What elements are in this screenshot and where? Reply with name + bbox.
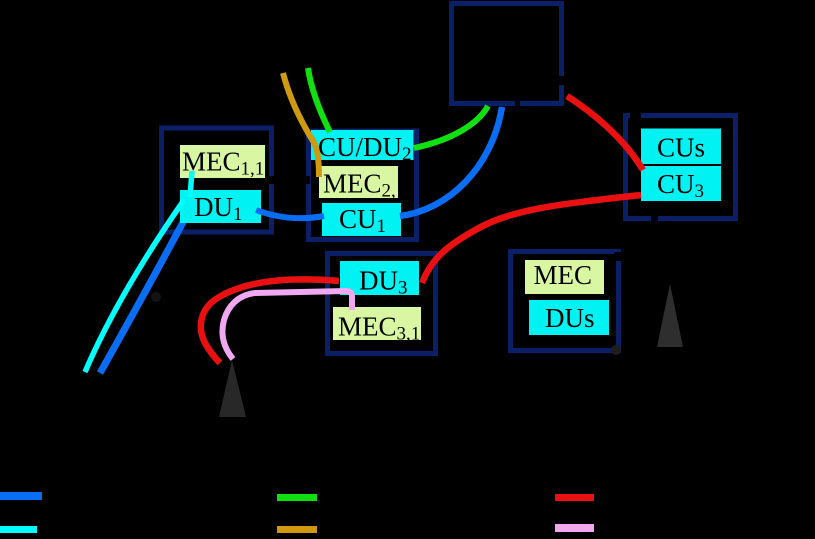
node CUs label [641,129,721,165]
node DU_1 label [180,190,261,225]
border notch MEC/DUs box top right [614,252,622,261]
wire red CU3 to DU3 [422,195,641,283]
node MEC/DUs box [511,252,619,351]
wire blue diagonal DU1 to antenna [100,213,188,373]
wire red cell-site to CUs [567,96,643,170]
svg-text:CU/DU2: CU/DU2 [318,132,412,165]
junction dot MEC/DUs box corner [611,345,621,355]
node CU box [626,116,736,219]
node cell-site box (top) [452,4,562,104]
antenna left [219,360,246,417]
wire green top to CU/DU2 [308,68,330,132]
border notch top box bottom [515,101,520,106]
legend swatch pink [555,524,594,532]
node DUs label [529,300,609,335]
svg-text:DUs: DUs [545,303,595,333]
legend swatch blue [0,492,42,500]
legend swatch green [277,494,317,501]
border notch MEC2 box left [305,176,310,184]
node MEC1 box [162,128,272,232]
wire green CU/DU2 to cell-site [414,106,488,148]
svg-text:CUs: CUs [657,133,705,163]
legend swatch orange [277,526,317,533]
junction dot near diagonals [151,292,161,302]
wire red DU3 to antenna [201,279,339,363]
node MEC2 box [309,131,417,240]
node MEC_2 label [319,166,398,202]
wire orange top to MEC2 [283,73,319,177]
node DU_3 label [340,261,419,299]
node MEC3 box [328,254,436,354]
node MEC label [525,260,604,294]
legend swatch cyan [0,526,37,533]
node CU_1 label [322,203,401,237]
border notch CU box bottom [651,214,658,221]
node MEC_1,1 label [180,145,265,180]
wire blue DU1 to CU1 [256,210,324,218]
node CU/DU_2 label [311,130,414,165]
wire blue CU1 to cell-site [400,107,502,216]
border notch CU box corner [630,112,641,119]
node MEC_3,1 label [333,307,421,345]
border notch MEC1 box right [269,176,275,184]
legend swatch red [555,494,594,501]
wire pink MEC3,1 to antenna [222,291,352,359]
node CU_3 label [641,166,721,202]
border notch top box right [558,76,567,85]
wire cyan MEC1,1 to antenna [85,171,192,372]
antenna right [657,284,683,347]
svg-text:MEC: MEC [534,260,593,290]
